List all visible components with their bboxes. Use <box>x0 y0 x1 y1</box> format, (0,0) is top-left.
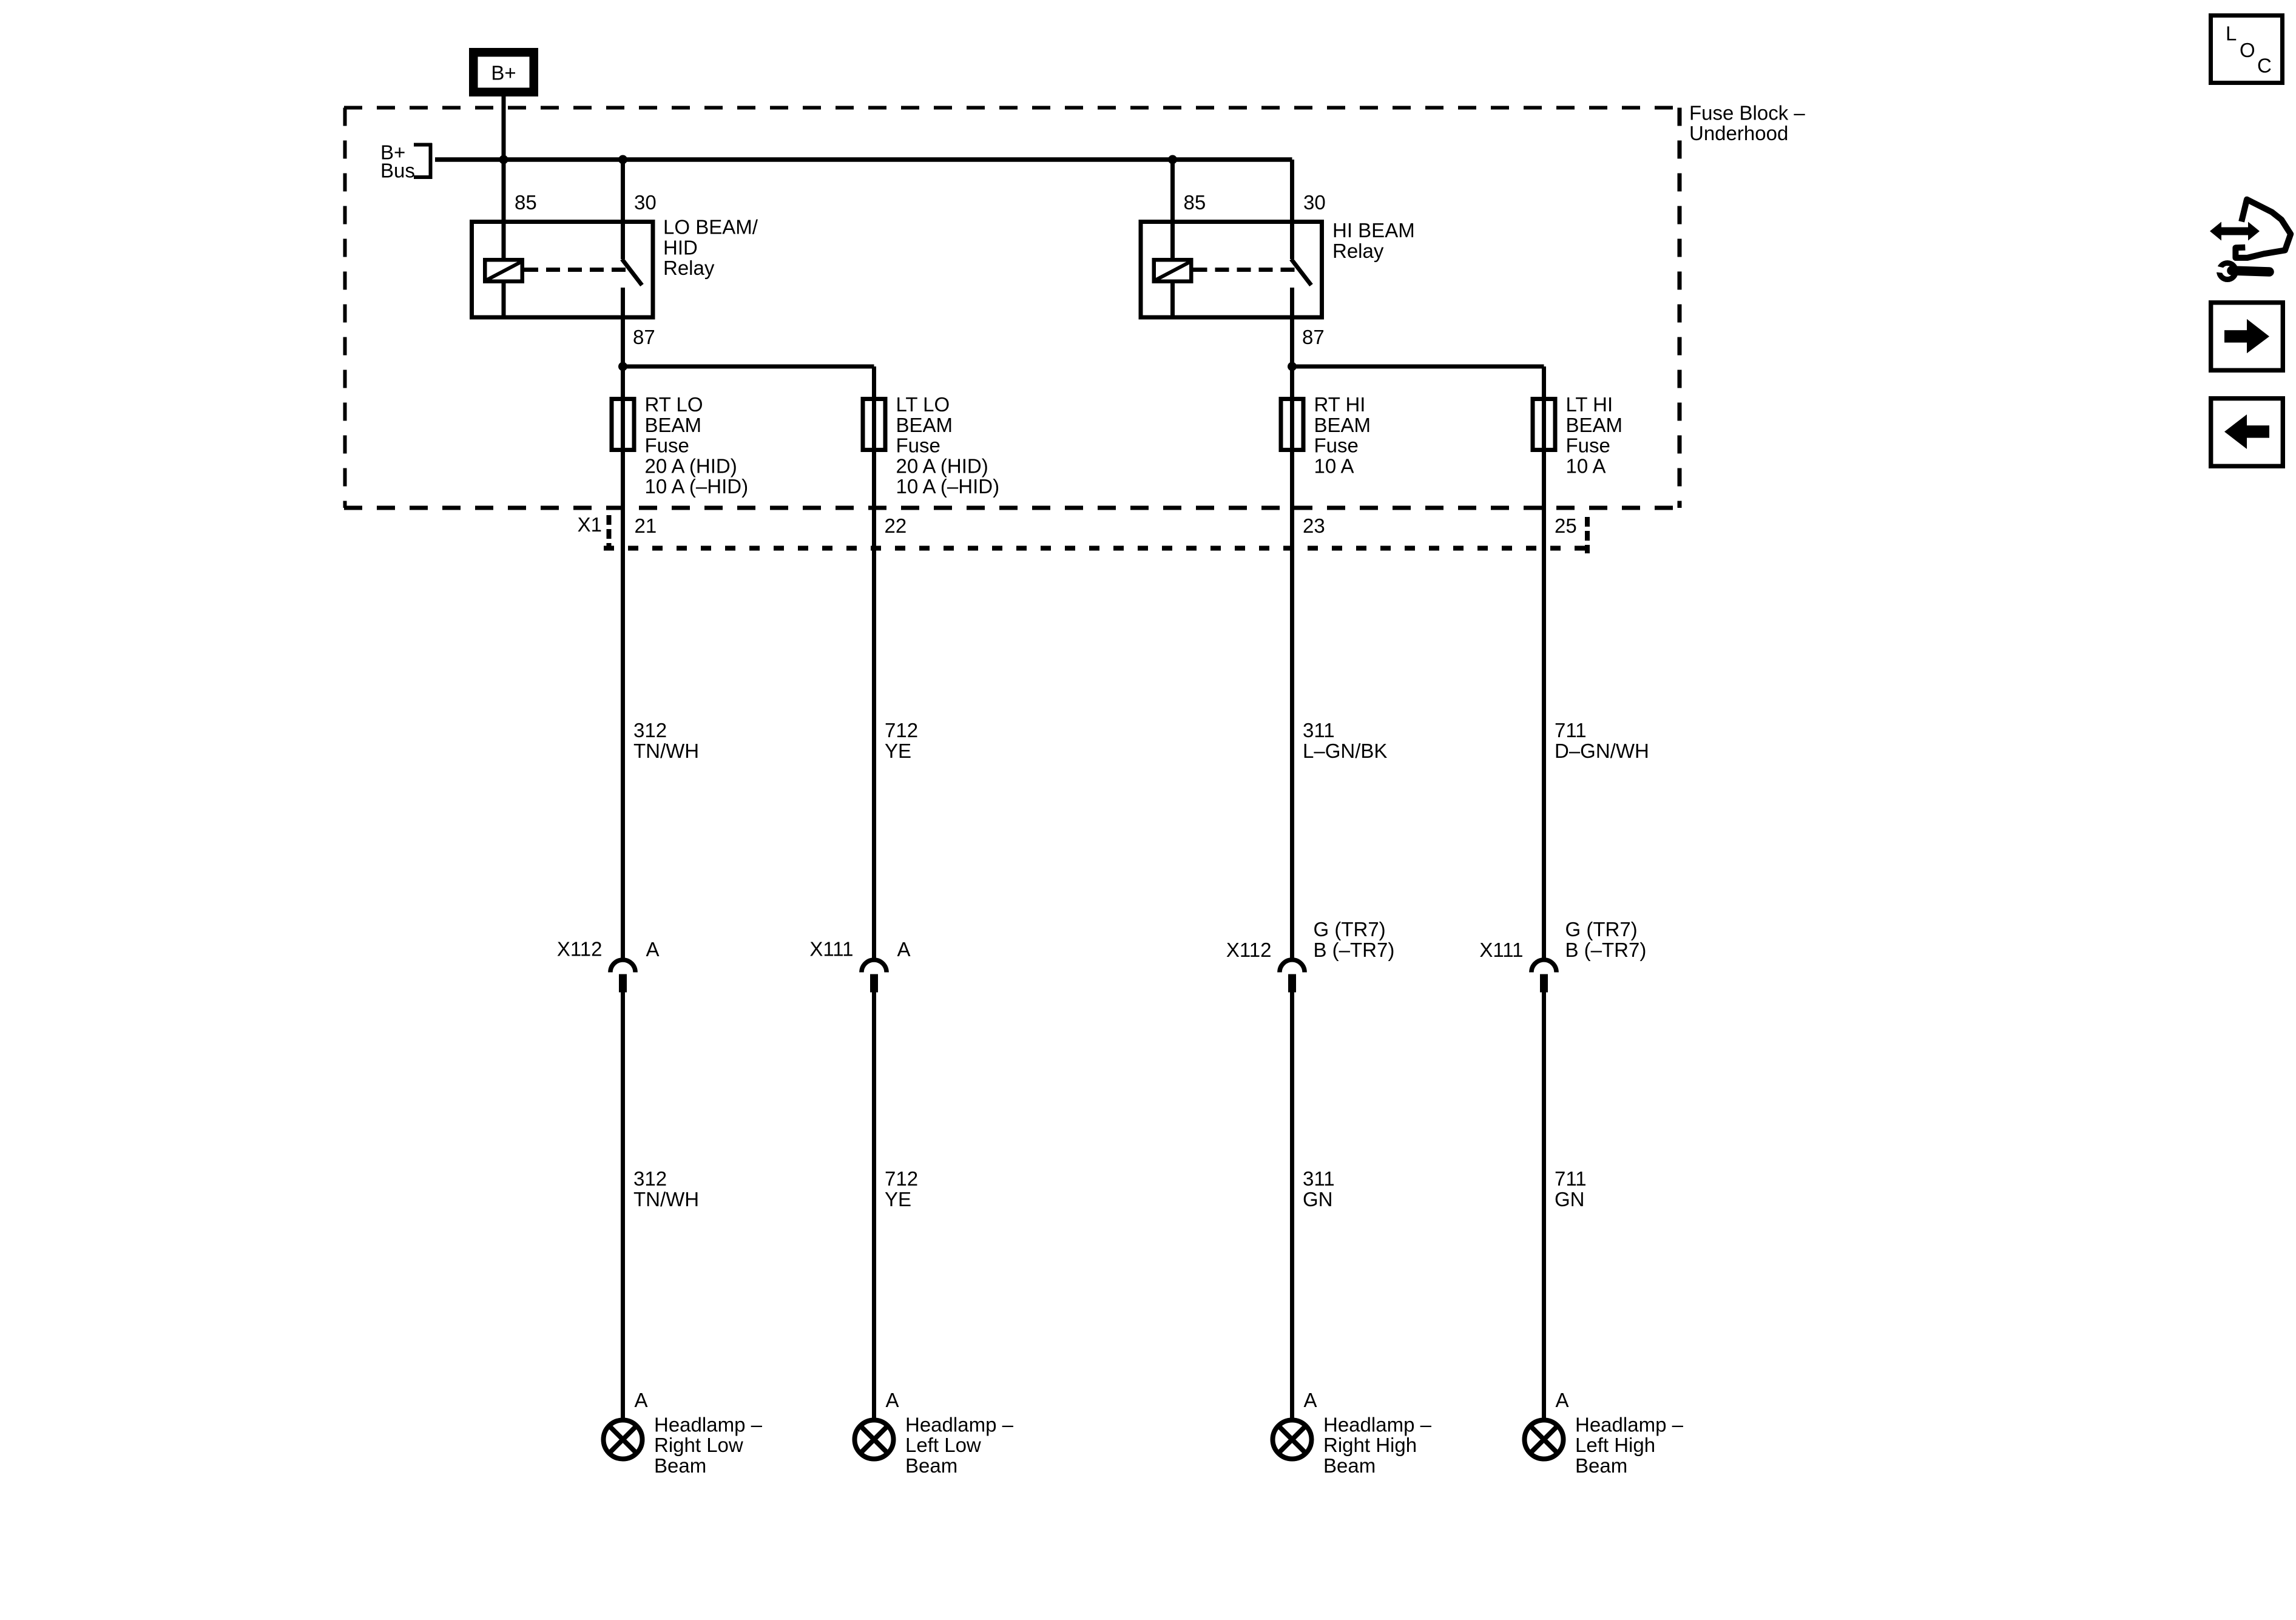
lamp headlamp Left Low Beam <box>855 1420 894 1459</box>
svg-text:RT HI: RT HI <box>1314 393 1366 416</box>
relay LO BEAM/HID pin 30 wire <box>621 160 625 259</box>
junction bus / relay2 pin85 <box>1168 155 1177 164</box>
pin label A (Left High Beam) <box>1556 1389 1569 1411</box>
wire 712 YE lower segment <box>872 993 876 1419</box>
svg-text:Headlamp –: Headlamp – <box>905 1413 1014 1436</box>
svg-text:712: 712 <box>885 719 918 741</box>
svg-text:BEAM: BEAM <box>1566 414 1623 436</box>
connector X1 dashed row line <box>604 546 1587 551</box>
fuse LT HI BEAM fuse <box>1533 399 1555 450</box>
svg-text:TN/WH: TN/WH <box>633 1188 699 1210</box>
pin label G (TR7) / B (–TR7) <box>1314 918 1395 961</box>
wire 311 GN lower segment <box>1290 993 1294 1419</box>
relay LO BEAM/HID coil <box>485 260 522 282</box>
lamp headlamp Left High Beam <box>1525 1420 1564 1459</box>
svg-text:B+: B+ <box>491 62 516 84</box>
svg-text:Relay: Relay <box>663 257 715 279</box>
relay HI BEAM pin 85 wire <box>1170 160 1175 260</box>
relay HI BEAM name label <box>1332 219 1415 262</box>
label LT HI BEAM fuse <box>1566 393 1623 477</box>
svg-text:BEAM: BEAM <box>1314 414 1371 436</box>
svg-text:87: 87 <box>633 326 655 348</box>
svg-text:85: 85 <box>1184 191 1206 214</box>
pin label A <box>897 938 911 960</box>
label LT LO BEAM fuse <box>896 393 1000 498</box>
label wire 712 YE lower <box>885 1167 918 1210</box>
svg-text:312: 312 <box>633 719 667 741</box>
svg-text:GN: GN <box>1303 1188 1333 1210</box>
svg-text:Beam: Beam <box>1575 1454 1627 1477</box>
svg-text:Headlamp –: Headlamp – <box>654 1413 763 1436</box>
label wire 312 TN/WH <box>633 719 699 762</box>
junction relay2 87 branch <box>1288 362 1297 371</box>
fuse RT HI BEAM fuse <box>1281 399 1303 450</box>
label headlamp Right Low Beam <box>654 1413 763 1477</box>
lamp headlamp Right High Beam <box>1273 1420 1312 1459</box>
svg-text:D–GN/WH: D–GN/WH <box>1555 740 1649 762</box>
svg-text:B (–TR7): B (–TR7) <box>1314 939 1395 961</box>
svg-text:HI BEAM: HI BEAM <box>1332 219 1415 241</box>
svg-text:85: 85 <box>515 191 537 214</box>
connector X1 right separator <box>1585 517 1590 553</box>
junction relay1 87 branch <box>618 362 627 371</box>
svg-text:BEAM: BEAM <box>896 414 953 436</box>
svg-text:RT LO: RT LO <box>645 393 703 416</box>
relay HI BEAM pin label 87 <box>1302 326 1325 348</box>
svg-text:711: 711 <box>1555 1167 1587 1190</box>
label wire 312 TN/WH lower <box>633 1167 699 1210</box>
svg-text:O: O <box>2240 39 2255 61</box>
relay HI BEAM box <box>1141 222 1322 318</box>
relay LO BEAM/HID box <box>472 222 653 318</box>
label wire 712 YE <box>885 719 918 762</box>
relay LO BEAM/HID pin label 85 <box>515 191 537 214</box>
relay LO BEAM/HID switch blade <box>622 259 642 285</box>
label B+ Bus <box>380 141 415 182</box>
next-page arrow box <box>2211 303 2283 371</box>
label X1 <box>578 513 602 536</box>
svg-text:A: A <box>646 938 660 960</box>
svg-text:311: 311 <box>1303 1167 1335 1190</box>
svg-text:LT HI: LT HI <box>1566 393 1613 416</box>
B+ battery terminal box <box>469 48 538 96</box>
svg-text:Right High: Right High <box>1323 1434 1417 1456</box>
wire through LT LO BEAM fuse <box>872 366 876 551</box>
lamp headlamp Right Low Beam <box>604 1420 643 1459</box>
junction B+ feed / bus <box>499 155 508 164</box>
connector X112 terminal <box>619 974 627 993</box>
svg-text:A: A <box>635 1389 648 1411</box>
label headlamp Left Low Beam <box>905 1413 1014 1477</box>
fuse RT LO BEAM fuse <box>612 399 634 450</box>
wire relay1 87 to LT LO fuse <box>623 366 874 400</box>
pin label 23 <box>1303 515 1325 537</box>
wire 712 YE upper segment <box>872 548 876 959</box>
svg-text:20 A (HID): 20 A (HID) <box>645 454 737 477</box>
svg-text:Headlamp –: Headlamp – <box>1575 1413 1684 1436</box>
pin label A (Left Low Beam) <box>886 1389 899 1411</box>
svg-text:X112: X112 <box>1226 939 1272 961</box>
svg-text:Fuse: Fuse <box>1566 434 1610 457</box>
svg-text:Relay: Relay <box>1332 240 1384 262</box>
svg-text:Left High: Left High <box>1575 1434 1655 1456</box>
connector X111 terminal <box>870 974 878 993</box>
service icon double arrow <box>2210 222 2260 241</box>
relay HI BEAM coil <box>1154 260 1192 282</box>
svg-text:G (TR7): G (TR7) <box>1314 918 1386 940</box>
label X111 <box>1479 939 1523 961</box>
svg-text:10 A (–HID): 10 A (–HID) <box>896 475 1000 498</box>
fuse block underhood dashed border top <box>344 106 1680 110</box>
wire 312 TN/WH upper segment <box>621 548 625 959</box>
svg-text:GN: GN <box>1555 1188 1585 1210</box>
label wire 311 GN lower <box>1303 1167 1335 1210</box>
svg-text:A: A <box>1304 1389 1317 1411</box>
fuse block underhood dashed border left <box>343 108 347 508</box>
relay HI BEAM switch blade <box>1291 259 1311 285</box>
svg-text:Left Low: Left Low <box>905 1434 981 1456</box>
connector X111 arc (wire x=1440.5) <box>862 960 886 973</box>
svg-text:20 A (HID): 20 A (HID) <box>896 454 988 477</box>
relay HI BEAM switch contact wire (pin 87) <box>1290 288 1294 366</box>
relay HI BEAM coil wire to box bottom <box>1170 281 1175 317</box>
svg-text:Fuse Block –: Fuse Block – <box>1689 101 1805 124</box>
svg-text:10 A: 10 A <box>1314 454 1354 477</box>
svg-text:25: 25 <box>1555 515 1577 537</box>
relay HI BEAM pin 30 wire <box>1290 160 1294 259</box>
svg-text:A: A <box>897 938 911 960</box>
wire through LT HI BEAM fuse <box>1542 366 1546 551</box>
wire through RT LO BEAM fuse <box>621 366 625 551</box>
svg-text:X1: X1 <box>578 513 602 536</box>
fuse block underhood dashed border bottom <box>344 506 1680 510</box>
svg-text:Fuse: Fuse <box>1314 434 1359 457</box>
relay HI BEAM pin label 85 <box>1184 191 1206 214</box>
svg-text:Fuse: Fuse <box>896 434 940 457</box>
pin label G (TR7) / B (–TR7) <box>1565 918 1647 961</box>
svg-text:X112: X112 <box>557 937 603 960</box>
svg-text:TN/WH: TN/WH <box>633 740 699 762</box>
svg-text:22: 22 <box>885 515 907 537</box>
relay HI BEAM pin label 30 <box>1303 191 1326 214</box>
junction bus / relay1 pin30 <box>618 155 627 164</box>
label wire 711 GN lower <box>1555 1167 1587 1210</box>
wire through RT HI BEAM fuse <box>1290 366 1294 551</box>
connector X112 arc (wire x=2129.5) <box>1280 960 1305 973</box>
svg-text:X111: X111 <box>1479 939 1523 961</box>
service icon hand outline <box>2235 200 2291 258</box>
svg-text:Underhood: Underhood <box>1689 122 1788 144</box>
pin label A (Right Low Beam) <box>635 1389 648 1411</box>
service icon wrench <box>2212 263 2269 280</box>
connector X111 terminal <box>1540 974 1548 993</box>
svg-text:30: 30 <box>634 191 657 214</box>
relay LO BEAM/HID pin label 87 <box>633 326 655 348</box>
connector X1 left separator <box>607 515 612 548</box>
svg-text:YE: YE <box>885 740 911 762</box>
svg-text:10 A (–HID): 10 A (–HID) <box>645 475 749 498</box>
svg-text:B (–TR7): B (–TR7) <box>1565 939 1647 961</box>
prev-page arrow box <box>2211 399 2283 467</box>
fuse LT LO BEAM fuse <box>863 399 885 450</box>
label X112 <box>557 937 603 960</box>
svg-text:Bus: Bus <box>380 160 415 182</box>
svg-text:711: 711 <box>1555 719 1587 741</box>
relay LO BEAM/HID pin label 30 <box>634 191 657 214</box>
relay LO BEAM/HID switch contact wire (pin 87) <box>621 288 625 366</box>
fuse block underhood dashed border right <box>1678 108 1682 508</box>
label wire 311 L–GN/BK <box>1303 719 1387 762</box>
wire 711 GN lower segment <box>1542 993 1546 1419</box>
relay LO BEAM/HID name label <box>663 216 758 280</box>
svg-text:X111: X111 <box>809 937 853 960</box>
svg-text:Beam: Beam <box>654 1454 706 1477</box>
svg-text:Beam: Beam <box>1323 1454 1376 1477</box>
svg-text:Headlamp –: Headlamp – <box>1323 1413 1432 1436</box>
svg-text:G (TR7): G (TR7) <box>1565 918 1638 940</box>
relay LO BEAM/HID pin 85 wire <box>502 160 506 260</box>
connector X112 arc (wire x=1026.5) <box>610 960 635 973</box>
pin label 22 <box>885 515 907 537</box>
label wire 711 D–GN/WH <box>1555 719 1649 762</box>
pin label A (Right High Beam) <box>1304 1389 1317 1411</box>
connector X111 arc (wire x=2544.5) <box>1531 960 1556 973</box>
wire 312 TN/WH lower segment <box>621 993 625 1419</box>
connector X112 terminal <box>1288 974 1296 993</box>
svg-text:LO BEAM/: LO BEAM/ <box>663 216 758 238</box>
svg-text:Beam: Beam <box>905 1454 957 1477</box>
relay HI BEAM coil-switch dashed link <box>1194 268 1300 272</box>
svg-text:87: 87 <box>1302 326 1325 348</box>
relay LO BEAM/HID coil wire to box bottom <box>502 281 506 317</box>
label X111 <box>809 937 853 960</box>
LOC reference box <box>2211 16 2283 83</box>
pin label 21 <box>635 515 657 537</box>
label Fuse Block - Underhood <box>1689 101 1805 144</box>
pin label 25 <box>1555 515 1577 537</box>
wire 711 D–GN/WH upper segment <box>1542 548 1546 959</box>
svg-text:10 A: 10 A <box>1566 454 1606 477</box>
svg-text:L–GN/BK: L–GN/BK <box>1303 740 1387 762</box>
svg-text:C: C <box>2257 55 2272 77</box>
svg-text:23: 23 <box>1303 515 1325 537</box>
svg-text:311: 311 <box>1303 719 1335 741</box>
svg-text:LT LO: LT LO <box>896 393 950 416</box>
relay LO BEAM/HID coil-switch dashed link <box>524 268 630 272</box>
label headlamp Right High Beam <box>1323 1413 1432 1477</box>
label X112 <box>1226 939 1272 961</box>
svg-text:A: A <box>1556 1389 1569 1411</box>
svg-text:21: 21 <box>635 515 657 537</box>
label RT HI BEAM fuse <box>1314 393 1371 477</box>
wire relay2 87 to LT HI fuse <box>1292 366 1544 400</box>
svg-text:BEAM: BEAM <box>645 414 702 436</box>
svg-text:Fuse: Fuse <box>645 434 689 457</box>
svg-text:A: A <box>886 1389 899 1411</box>
pin label A <box>646 938 660 960</box>
B+ bus bracket <box>414 143 432 179</box>
svg-text:712: 712 <box>885 1167 918 1190</box>
wire B+ to bus <box>502 96 506 160</box>
svg-text:312: 312 <box>633 1167 667 1190</box>
svg-text:Right Low: Right Low <box>654 1434 743 1456</box>
label RT LO BEAM fuse <box>645 393 749 498</box>
B+ bus wire <box>435 157 1292 162</box>
svg-text:HID: HID <box>663 236 698 258</box>
svg-text:YE: YE <box>885 1188 911 1210</box>
svg-text:30: 30 <box>1303 191 1326 214</box>
svg-text:L: L <box>2226 22 2237 45</box>
wire 311 L–GN/BK upper segment <box>1290 548 1294 959</box>
label headlamp Left High Beam <box>1575 1413 1684 1477</box>
